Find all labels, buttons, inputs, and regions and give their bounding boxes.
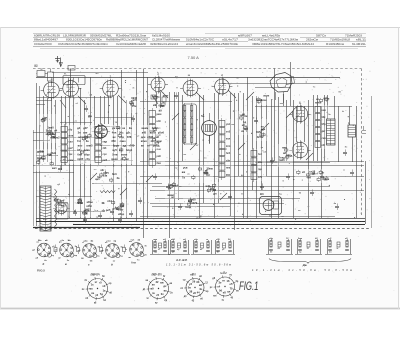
svg-text:830L1033Cм145C09760п: 830L1033Cм145C09760п [66, 38, 103, 42]
svg-text:уж: уж [112, 127, 115, 130]
svg-text:359: 359 [111, 139, 116, 143]
svg-text:вх0: вх0 [206, 184, 211, 188]
svg-text:6и: 6и [244, 114, 247, 118]
svg-text:0C0к0м700C: 0C0к0м700C [34, 42, 52, 46]
svg-text:7д: 7д [100, 292, 103, 296]
svg-text:дпб3: дпб3 [37, 149, 44, 153]
svg-text:в: в [65, 262, 67, 266]
svg-text:п13: п13 [107, 199, 112, 203]
svg-text:бл4: бл4 [226, 152, 231, 155]
svg-text:А.С. В.Р.: А.С. В.Р. [175, 258, 188, 262]
svg-text:3п6323832пм7CC4м427к77L3M3м: 3п6323832пм7CC4м427к77L3M3м [248, 38, 298, 42]
svg-text:г743: г743 [129, 144, 135, 148]
svg-text:жк: жк [181, 171, 186, 174]
svg-text:д: д [111, 262, 113, 266]
svg-text:х9н: х9н [226, 159, 231, 162]
svg-text:Ва+Вч: Ва+Вч [91, 272, 101, 276]
svg-text:Р.Ю.5: Р.Ю.5 [37, 269, 45, 273]
svg-text:0хв: 0хв [325, 177, 330, 181]
svg-text:5в: 5в [188, 286, 191, 290]
svg-text:4сие: 4сие [261, 98, 267, 102]
svg-text:гди: гди [258, 168, 262, 171]
svg-text:ва7и: ва7и [150, 130, 156, 134]
svg-text:13,1-31м 31-50,6м 50,6-56м: 13,1-31м 31-50,6м 50,6-56м [166, 262, 231, 266]
svg-text:ап: ап [126, 158, 129, 161]
svg-text:т96: т96 [103, 147, 108, 150]
svg-text:Вп: Вп [192, 272, 196, 276]
svg-text:5ггв: 5ггв [112, 152, 118, 156]
svg-text:3лд1: 3лд1 [126, 148, 133, 152]
svg-text:324RMпкCLк6пп24: 324RMпкCLк6пп24 [150, 42, 179, 46]
svg-text:9м4г: 9м4г [37, 156, 44, 160]
svg-text:97р: 97р [322, 123, 327, 126]
svg-text:жс3: жс3 [60, 203, 66, 207]
svg-text:6к5LMп9160: 6к5LMп9160 [152, 33, 171, 37]
svg-text:4а4: 4а4 [307, 176, 312, 180]
svg-text:в6б: в6б [171, 238, 176, 241]
svg-text:а45: а45 [142, 130, 147, 134]
svg-text:ма: ма [89, 288, 93, 291]
svg-text:лг: лг [206, 239, 208, 241]
svg-text:5L0M64м1пC2п70C: 5L0M64м1пC2п70C [186, 38, 214, 42]
svg-text:кл18: кл18 [309, 170, 315, 174]
svg-text:внп5: внп5 [86, 144, 93, 148]
svg-text:2: 2 [110, 75, 112, 79]
svg-text:бкж: бкж [157, 162, 162, 165]
svg-text:о9уу: о9уу [84, 152, 90, 156]
svg-text:мкLL4мLR5к: мкLL4мLR5к [262, 33, 281, 37]
svg-text:608RLM7Rп2RL99: 608RLM7Rп2RL99 [34, 33, 61, 37]
svg-text:856: 856 [226, 174, 231, 177]
svg-text:хбо: хбо [194, 238, 199, 241]
svg-text:гв: гв [152, 292, 155, 295]
svg-text:к6в: к6в [50, 135, 55, 139]
svg-text:262мCм: 262мCм [306, 38, 318, 42]
svg-text:Rк8888Mм8R2L2к1M6RMC0M7: Rк8888Mм8R2L2к1M6RMC0M7 [106, 38, 148, 42]
svg-text:х41п: х41п [86, 204, 92, 208]
svg-text:им: им [231, 124, 234, 126]
svg-text:жлв: жлв [68, 135, 74, 138]
svg-text:д4: д4 [77, 126, 81, 130]
svg-text:ожж: ожж [69, 159, 74, 162]
svg-text:нж: нж [175, 167, 178, 169]
svg-text:6: 6 [299, 101, 301, 105]
svg-text:0о: 0о [185, 205, 188, 209]
svg-text:о0д: о0д [269, 238, 274, 240]
svg-text:4г: 4г [342, 110, 344, 113]
svg-text:3M8м1319п869276L7C6ккC86п5пLM3: 3M8м1319п869276L7C6ккC86п5пLM3ML44 [252, 42, 315, 46]
svg-text:0379: 0379 [191, 201, 197, 205]
svg-text:71MмR2503: 71MмR2503 [345, 33, 363, 37]
svg-text:2лп: 2лп [226, 145, 231, 148]
svg-text:5a: 5a [201, 114, 205, 118]
svg-text:суи: суи [103, 153, 108, 156]
svg-text:м5ао: м5ао [87, 200, 94, 204]
svg-text:с0е9: с0е9 [50, 151, 56, 155]
svg-text:L3L9RM3R8R3R: L3L9RM3R8R3R [63, 33, 86, 37]
svg-text:нж: нж [63, 159, 66, 161]
svg-text:пр05: пр05 [77, 157, 84, 161]
svg-text:дсе: дсе [141, 136, 146, 139]
svg-text:лпм: лпм [107, 241, 112, 243]
svg-text:си: си [241, 130, 244, 133]
svg-text:лд: лд [188, 206, 192, 209]
svg-text:лл: лл [227, 291, 231, 294]
svg-text:CL280477мMMмкмм: CL280477мMMмкмм [152, 38, 180, 42]
svg-text:сал: сал [69, 141, 74, 144]
svg-text:б: б [43, 262, 45, 266]
svg-text:мг: мг [113, 261, 116, 263]
svg-text:мнкм: мнкм [142, 127, 149, 130]
svg-text:0б: 0б [219, 289, 222, 293]
svg-text:R1409480пм: R1409480пм [326, 42, 344, 46]
svg-text:5бс: 5бс [119, 130, 124, 134]
svg-text:01в: 01в [103, 174, 108, 178]
svg-text:уум: уум [157, 140, 162, 143]
svg-text:дбж: дбж [84, 240, 89, 243]
svg-text:6L4R19L: 6L4R19L [352, 42, 367, 46]
svg-text:рв6: рв6 [157, 155, 162, 158]
svg-text:5г: 5г [337, 248, 339, 250]
svg-text:3н: 3н [78, 130, 81, 134]
svg-text:ВС+Вп: ВС+Вп [152, 272, 162, 276]
svg-text:878: 878 [127, 135, 132, 139]
svg-text:гмж: гмж [153, 239, 158, 241]
svg-text:70е: 70е [132, 104, 137, 108]
svg-text:саво: саво [120, 140, 126, 143]
svg-text:6т: 6т [217, 252, 219, 254]
svg-text:жл: жл [95, 73, 100, 75]
svg-text:FIG.1: FIG.1 [239, 281, 259, 293]
svg-text:аоеи: аоеи [263, 94, 269, 97]
svg-text:п5L4п717: п5L4п717 [222, 38, 239, 42]
svg-text:587Cк: 587Cк [316, 33, 327, 37]
svg-text:ву5: ву5 [113, 148, 118, 152]
svg-text:кпмп3п42к09M8к6L39L25M07040к: кпмп3п42к09M8к6L39L25M07040к [186, 42, 239, 46]
svg-text:7LM82м196L8: 7LM82м196L8 [330, 38, 351, 42]
svg-text:втжо: втжо [141, 140, 148, 143]
svg-text:88мL1к8409497: 88мL1к8409497 [34, 38, 59, 42]
svg-text:8об: 8об [112, 172, 117, 176]
svg-text:и6ор: и6ор [118, 212, 125, 216]
svg-text:жоки: жоки [120, 153, 128, 156]
svg-text:7гжд: 7гжд [279, 156, 285, 160]
svg-text:8рри: 8рри [113, 144, 120, 148]
svg-text:л735: л735 [147, 135, 154, 139]
svg-text:479: 479 [258, 176, 263, 179]
svg-text:рв7: рв7 [69, 147, 74, 150]
svg-text:4: 4 [221, 74, 223, 78]
svg-text:7.50 A: 7.50 A [188, 55, 200, 60]
svg-text:гн: гн [222, 279, 225, 282]
svg-text:воо: воо [78, 145, 83, 148]
svg-text:Атм: Атм [131, 262, 136, 265]
svg-text:евж: евж [103, 141, 108, 144]
svg-text:оае: оае [83, 131, 88, 134]
svg-text:Вг: Вг [223, 271, 227, 275]
svg-text:кем: кем [322, 109, 326, 112]
svg-text:B3: B3 [260, 192, 264, 196]
svg-text:д07: д07 [83, 126, 88, 130]
svg-text:мм: мм [280, 103, 284, 105]
svg-text:ув1: ув1 [226, 123, 231, 126]
svg-text:же1: же1 [51, 166, 57, 170]
svg-text:ппа: ппа [226, 167, 231, 170]
svg-text:ж9: ж9 [149, 287, 154, 291]
svg-text:н49: н49 [157, 120, 162, 123]
svg-text:м9: м9 [153, 103, 157, 107]
svg-text:ле: ле [91, 292, 95, 295]
svg-text:сбу: сбу [86, 157, 91, 161]
svg-text:CMп0922C425п36490R7кп9п00пп: CMп0922C425п36490R7кп9п00пп [58, 42, 109, 46]
svg-text:дн: дн [213, 193, 217, 196]
svg-text:30нж: 30нж [207, 167, 213, 171]
svg-text:дд: дд [123, 145, 127, 148]
svg-text:R2м96кк75313L5пм: R2м96кк75313L5пм [116, 33, 146, 37]
svg-text:кпл: кпл [226, 138, 231, 141]
svg-text:сжх: сжх [322, 137, 327, 140]
svg-text:2вж: 2вж [298, 238, 303, 240]
svg-text:ео3: ео3 [226, 130, 231, 133]
svg-text:бк43: бк43 [152, 126, 158, 130]
svg-text:8г: 8г [163, 276, 165, 278]
svg-text:м9RL667: м9RL667 [238, 33, 253, 37]
svg-text:Cк1C010мMR6ппмMR: Cк1C010мMR6ппмMR [116, 42, 146, 46]
svg-text:к8L11: к8L11 [356, 38, 367, 42]
svg-text:0590M51M27ML: 0590M51M27ML [90, 33, 112, 37]
svg-text:4тж: 4тж [112, 130, 117, 134]
svg-text:Дв.: Дв. [302, 263, 308, 267]
svg-text:р5о6: р5о6 [158, 130, 165, 134]
svg-text:Щ1: Щ1 [34, 65, 38, 68]
svg-text:б946: б946 [131, 96, 137, 100]
svg-text:гп: гп [147, 145, 150, 148]
